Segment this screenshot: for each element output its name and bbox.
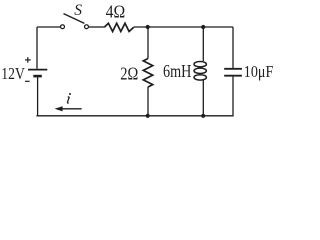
svg-text:2Ω: 2Ω bbox=[120, 64, 138, 84]
svg-text:6mH: 6mH bbox=[163, 61, 191, 81]
svg-text:10μF: 10μF bbox=[244, 62, 273, 81]
svg-text:4Ω: 4Ω bbox=[106, 2, 126, 22]
svg-text:S: S bbox=[74, 2, 82, 19]
svg-text:12V: 12V bbox=[1, 64, 25, 83]
